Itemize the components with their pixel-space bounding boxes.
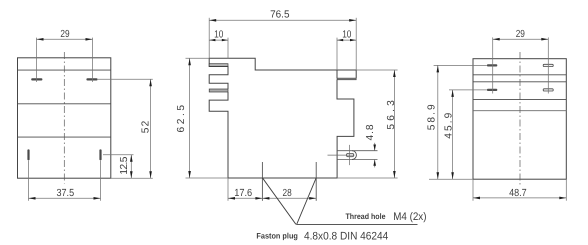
front terminal blade left [31, 78, 42, 80]
svg-text:76.5: 76.5 [270, 10, 290, 21]
back view line a [473, 74, 566, 76]
thread hole inner socket [347, 153, 354, 156]
side left slot blade band (top) [209, 64, 228, 67]
back view line b [473, 81, 566, 83]
svg-text:48.7: 48.7 [509, 188, 527, 199]
thread hole top line [337, 150, 377, 152]
svg-text:29: 29 [516, 29, 525, 40]
svg-text:58.9: 58.9 [427, 104, 438, 130]
thread hole vertical centerline [349, 145, 351, 165]
dimension 37.5 (front) [29, 161, 101, 201]
dimension 29 (back) [493, 37, 549, 93]
svg-text:Thread hole: Thread hole [346, 212, 386, 221]
dimension 12.5 (front right) [103, 155, 134, 178]
svg-text:29: 29 [60, 29, 69, 40]
front view vertical centerline [63, 52, 65, 184]
dimension 62.5 (side left) [186, 58, 229, 178]
side left blade (middle) [209, 89, 228, 92]
svg-text:4.8x0.8 DIN 46244: 4.8x0.8 DIN 46244 [304, 231, 388, 243]
faston pin left (side) [261, 162, 263, 201]
svg-text:28: 28 [283, 188, 292, 199]
side bottom-left extension [227, 178, 229, 201]
back blade row2 left [487, 89, 497, 91]
front pin right [99, 149, 101, 160]
side top slot left wall [336, 70, 338, 78]
front view divider line [18, 136, 111, 138]
thread hole horizontal centerline [328, 154, 355, 156]
dimension 4.8 (thread hole) [374, 143, 376, 168]
back view line c [473, 99, 566, 101]
back blade row1 left [487, 64, 497, 66]
svg-text:Faston plug: Faston plug [256, 232, 298, 241]
svg-text:37.5: 37.5 [57, 188, 75, 199]
thread hole bottom line [337, 159, 377, 161]
dimension 10 (left tab) [209, 38, 228, 59]
svg-text:10: 10 [214, 30, 223, 41]
faston leader V right [297, 178, 317, 225]
back blade row2 right [543, 89, 553, 91]
side top slot blade (right) [337, 78, 356, 80]
thread hole rounded end [352, 151, 356, 160]
front view cap line [18, 69, 111, 71]
front terminal blade right [86, 78, 97, 80]
note leader underline [296, 223, 417, 225]
dimension 76.5 [209, 18, 356, 70]
back view body outline [473, 59, 566, 180]
side view body outline [209, 58, 356, 178]
svg-text:10: 10 [342, 30, 351, 41]
svg-text:52: 52 [140, 120, 151, 133]
faston leader V left [262, 178, 296, 225]
dimension 28 [262, 197, 316, 199]
svg-text:4.8: 4.8 [365, 124, 376, 140]
dimension 45.9 (back left inner) [449, 90, 487, 179]
dimension 10 (right tab) [337, 38, 356, 70]
svg-text:12.5: 12.5 [119, 156, 130, 174]
svg-text:45.9: 45.9 [444, 112, 455, 138]
back blade row1 right [543, 64, 553, 66]
front view mid line [18, 103, 111, 105]
dimension 58.9 (back left) [429, 65, 487, 179]
dimension 48.7 (back bottom) [473, 179, 566, 201]
faston pin right (side) [315, 162, 317, 201]
dimension 17.6 [228, 197, 262, 199]
svg-text:17.6: 17.6 [234, 188, 252, 199]
front pin left [27, 149, 29, 160]
dimension 29 (front) [37, 38, 93, 82]
back view line d [473, 110, 566, 112]
svg-text:M4 (2x): M4 (2x) [393, 211, 426, 223]
front view body outline [18, 58, 111, 178]
dimension 56.3 (side right) [337, 70, 398, 178]
dimension 52 (front right) [98, 79, 153, 178]
back view vertical centerline [519, 52, 521, 186]
